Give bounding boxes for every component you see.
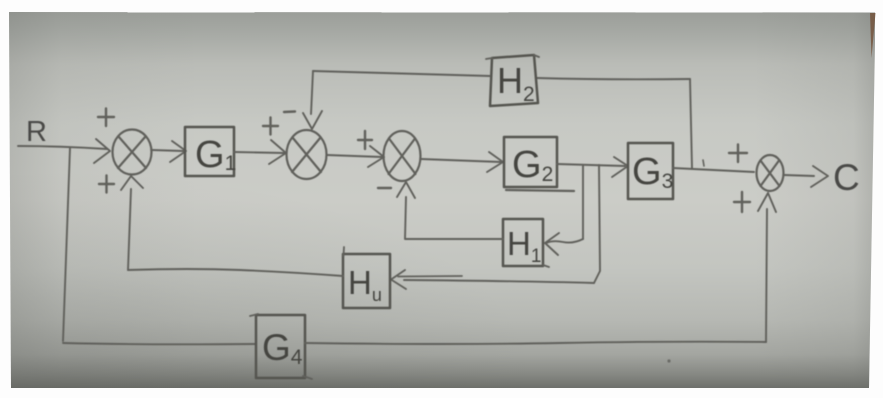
block H3	[343, 254, 390, 308]
block G2	[504, 137, 557, 187]
arrowhead into summing junction S2	[269, 140, 286, 164]
wire S3 to G2	[421, 159, 501, 162]
stray pencil dot	[667, 359, 670, 362]
summing junction S1	[113, 130, 152, 175]
block G3	[628, 143, 673, 199]
wire H1 output to S3 bottom	[405, 197, 503, 239]
overshoot tick G4 bottom-right	[303, 376, 312, 379]
plus sign S4 bottom	[734, 192, 750, 212]
wire S2 to S3	[327, 155, 382, 157]
wire G3 to S4	[673, 168, 754, 172]
wire riser up into S4 bottom	[766, 209, 767, 342]
arrowhead into block G1	[170, 141, 186, 162]
plus sign S3 left	[358, 131, 372, 149]
overshoot tick G4 top-left	[250, 314, 258, 316]
plus sign S2 left	[263, 118, 278, 135]
tick mark on wire after G3	[703, 160, 704, 166]
arrowhead into block G3	[612, 157, 628, 177]
arrowhead into summing junction S3	[368, 146, 384, 167]
wire into H3 from takeoff	[404, 280, 594, 283]
overshoot tick H3 top-left	[343, 247, 346, 256]
wire H3 output to S1 riser	[128, 269, 343, 276]
stray doubled bottom edge of G2	[506, 190, 574, 191]
plus sign S4 top	[729, 145, 747, 163]
wire takeoff down to H1	[582, 165, 584, 239]
arrowhead up into S3 bottom	[397, 182, 415, 198]
arrowhead up into S4 bottom	[758, 193, 776, 212]
wire takeoff down to H3	[594, 165, 600, 283]
svg-text:R: R	[26, 116, 47, 148]
overshoot tick H1 bottom-right	[543, 265, 549, 267]
wire squiggle into H1 right	[546, 239, 583, 243]
summing junction S2	[287, 130, 327, 179]
wire G2 to G3	[557, 164, 625, 166]
arrowhead up into S1 bottom	[121, 176, 143, 190]
wire H2 drop into S2	[311, 71, 313, 114]
summing junction S3	[384, 131, 421, 181]
wire G4 bottom-left horizontal	[63, 343, 255, 344]
minus sign S3 bottom	[378, 187, 391, 189]
overshoot tick H2 top edge	[486, 55, 539, 59]
plus sign S1 top	[98, 109, 114, 127]
wire G4 output bottom horizontal	[305, 342, 766, 344]
arrowhead into H3 right side	[391, 270, 406, 289]
block H1	[503, 219, 543, 266]
wire branch takeoff down from R line	[63, 148, 70, 341]
wire S1 to G1	[152, 150, 183, 151]
block H2	[490, 55, 538, 106]
block G4	[256, 315, 305, 378]
block G1	[185, 127, 234, 176]
wire riser up into S1 bottom	[128, 189, 131, 270]
wire H2 top horizontal right segment	[537, 78, 690, 79]
plus sign S1 bottom	[99, 176, 114, 193]
wire R input	[18, 146, 107, 149]
wire H2 output left segment	[313, 71, 490, 76]
brown sliver top-right photo edge	[870, 13, 876, 58]
arrowhead into H1 right side	[545, 233, 559, 255]
wire H2 feedback riser	[690, 79, 692, 168]
wire S4 to C output	[784, 175, 814, 176]
summing junction S4	[757, 155, 784, 191]
svg-text:C: C	[833, 157, 860, 198]
arrowhead into summing junction S1	[94, 139, 110, 163]
wire G1 to S2	[234, 152, 284, 153]
arrowhead down into S2 top	[303, 111, 322, 129]
arrowhead into block G2	[487, 152, 503, 172]
minus sign S2 top	[284, 110, 295, 113]
arrowhead at C	[811, 166, 828, 187]
doubled arrow shaft at H3	[398, 275, 462, 278]
